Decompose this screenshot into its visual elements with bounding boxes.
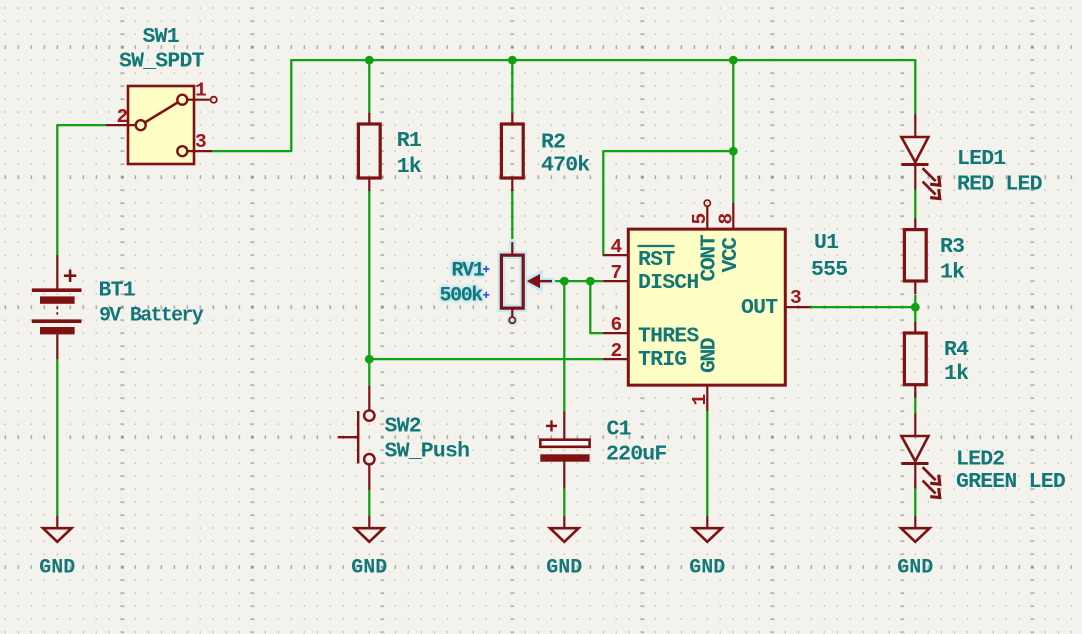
svg-text:500k: 500k	[440, 285, 484, 308]
wire top bus	[291, 59, 915, 61]
wire R3 to node OUT	[914, 296, 916, 308]
U1 pin 5 CONT lead	[706, 206, 708, 229]
svg-text:TRIG: TRIG	[638, 348, 686, 372]
wire battery to GND	[56, 359, 58, 516]
ground battery	[43, 516, 72, 542]
RV1 unconnected pin 3 circle	[509, 317, 515, 323]
battery BT1	[32, 255, 82, 359]
svg-text:VCC: VCC	[719, 237, 743, 273]
wire LED2 to GND	[914, 482, 916, 516]
svg-text:SW_SPDT: SW_SPDT	[119, 50, 205, 74]
svg-text:RST: RST	[638, 248, 675, 272]
wire SW1 pin3 to bus	[212, 60, 291, 151]
IC U1 555 body	[628, 229, 785, 385]
svg-text:OUT: OUT	[741, 296, 778, 320]
wire R1 to node A	[368, 191, 370, 387]
svg-text:4: 4	[611, 236, 623, 258]
wire SW2 to GND	[368, 490, 370, 517]
svg-text:7: 7	[611, 262, 622, 284]
svg-text:U1: U1	[814, 231, 838, 255]
wire RST branch	[603, 151, 733, 255]
wire bus to LED1	[914, 60, 916, 114]
switch SW2 push button	[338, 386, 375, 490]
junction bus R1	[365, 56, 374, 65]
svg-text:LED1: LED1	[957, 147, 1005, 171]
resistor R1	[358, 113, 380, 191]
wire 555 pin1 to GND	[706, 411, 708, 516]
RV1 value anchor marker	[483, 292, 489, 298]
svg-text:5: 5	[689, 214, 711, 225]
svg-text:SW2: SW2	[385, 415, 421, 439]
junction OUT R3 R4	[911, 303, 920, 312]
junction wiper THRES	[586, 277, 595, 286]
U1 RST overline	[638, 245, 675, 247]
wire bus to R1	[368, 60, 370, 113]
svg-text:1: 1	[195, 79, 206, 101]
svg-text:SW1: SW1	[143, 25, 179, 49]
wire node OUT to R4	[914, 307, 916, 322]
capacitor C1 polarized	[540, 412, 589, 489]
svg-text:GREEN LED: GREEN LED	[956, 470, 1066, 494]
svg-text:220uF: 220uF	[606, 443, 667, 467]
U1 pin 6 lead	[603, 332, 628, 334]
wire LED1 to R3	[914, 190, 916, 220]
wire node A to TRIG pin2	[369, 358, 603, 360]
svg-text:R3: R3	[940, 235, 964, 259]
svg-text:6: 6	[611, 314, 622, 336]
svg-text:GND: GND	[351, 557, 387, 580]
svg-text:1: 1	[689, 395, 711, 406]
U1 pin 3 OUT lead	[785, 306, 810, 308]
junction bus R2	[508, 56, 517, 65]
potentiometer RV1 selection glow	[501, 242, 552, 323]
svg-text:RV1: RV1	[452, 260, 485, 283]
U1 pin 4 lead	[603, 254, 628, 256]
svg-text:1k: 1k	[940, 261, 965, 285]
wire bus to VCC pin8	[732, 60, 734, 203]
RV1 reference anchor marker	[483, 266, 489, 272]
ground U1	[693, 516, 722, 542]
svg-text:1k: 1k	[944, 362, 969, 386]
U1 pin 5 unconnected circle	[704, 200, 710, 206]
wire R4 to LED2	[914, 392, 916, 413]
svg-text:R2: R2	[541, 131, 565, 155]
LED LED1	[901, 115, 939, 199]
LED LED2	[901, 414, 939, 498]
junction bus VCC	[729, 56, 738, 65]
svg-text:GND: GND	[897, 557, 933, 580]
junction RST branch	[729, 147, 738, 156]
svg-text:1k: 1k	[397, 155, 422, 179]
ground SW2	[355, 516, 384, 542]
svg-text:LED2: LED2	[956, 448, 1004, 472]
resistor R4	[904, 322, 926, 398]
svg-text:GND: GND	[698, 337, 722, 373]
svg-text:555: 555	[811, 258, 847, 282]
U1 pin 7 lead	[603, 280, 628, 282]
svg-text:R1: R1	[397, 129, 421, 153]
svg-text:8: 8	[716, 214, 738, 225]
wire OUT to LED node	[810, 306, 915, 308]
svg-text:C1: C1	[607, 418, 631, 442]
wire C1 to GND	[563, 488, 565, 516]
wire wiper node to C1	[563, 281, 565, 411]
svg-text:RED LED: RED LED	[957, 173, 1043, 197]
svg-text:DISCH: DISCH	[638, 271, 699, 295]
U1 pin 1 GND lead	[706, 385, 708, 411]
svg-text:3: 3	[195, 131, 206, 153]
junction wiper C1	[560, 277, 569, 286]
junction node A TRIG	[365, 355, 374, 364]
svg-text:9V Battery: 9V Battery	[99, 305, 204, 328]
wire bus to R2	[511, 60, 513, 113]
wire RV1 wiper to DISCH pin7	[552, 280, 603, 282]
wire SW1 pin2 to battery	[57, 125, 106, 255]
switch SW1	[106, 86, 212, 164]
svg-text:GND: GND	[546, 557, 582, 580]
resistor R3	[904, 219, 926, 294]
U1 pin 2 lead	[603, 358, 628, 360]
svg-text:3: 3	[790, 287, 801, 309]
resistor R2	[501, 113, 523, 191]
svg-text:470k: 470k	[541, 154, 590, 178]
svg-text:CONT: CONT	[698, 234, 722, 281]
U1 pin 8 VCC lead	[732, 203, 734, 229]
svg-text:THRES: THRES	[638, 325, 699, 349]
svg-text:SW_Push: SW_Push	[385, 440, 470, 464]
ground LED2	[901, 516, 930, 542]
svg-text:2: 2	[611, 340, 622, 362]
svg-text:GND: GND	[689, 557, 725, 580]
svg-text:R4: R4	[944, 338, 969, 362]
SW1 unconnected pin 1 circle	[211, 97, 217, 103]
svg-text:GND: GND	[39, 557, 75, 580]
ground C1	[550, 516, 579, 542]
potentiometer RV1	[501, 242, 552, 317]
wire R2 to RV1	[511, 191, 513, 243]
svg-text:2: 2	[117, 106, 128, 128]
wire node to THRES pin6	[590, 281, 603, 333]
svg-text:BT1: BT1	[99, 279, 135, 303]
